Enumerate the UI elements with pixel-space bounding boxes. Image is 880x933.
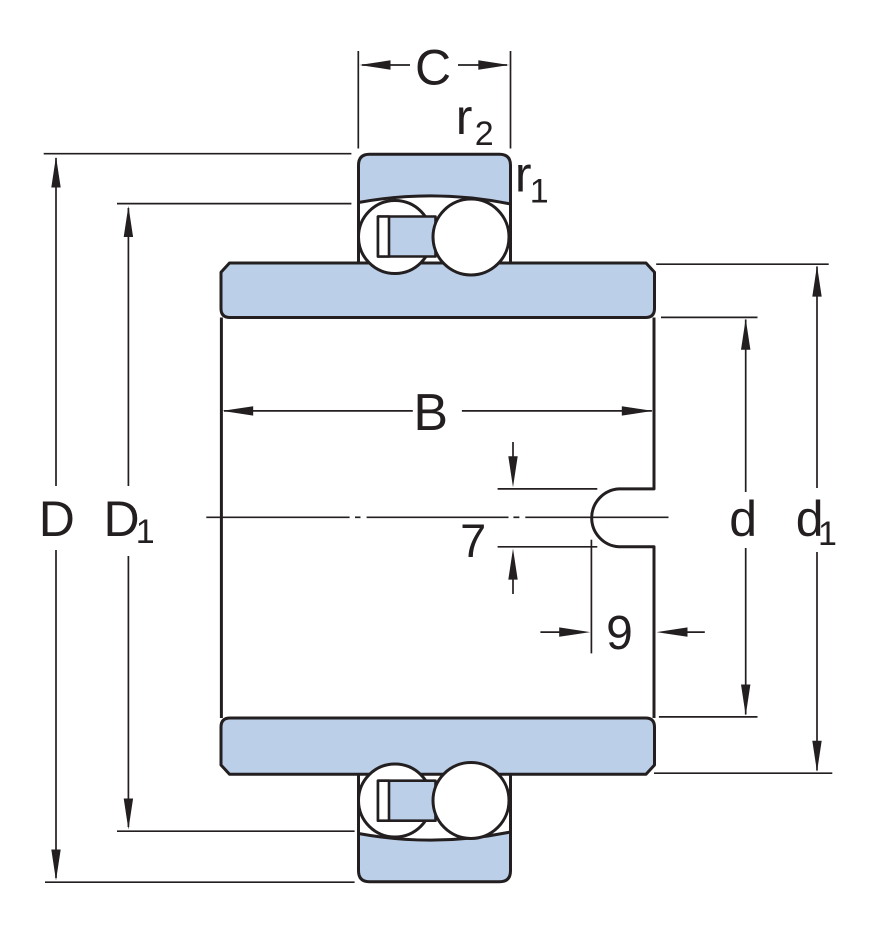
svg-text:B: B	[413, 384, 448, 442]
svg-text:9: 9	[606, 607, 633, 660]
svg-text:2: 2	[475, 115, 494, 153]
svg-text:7: 7	[460, 514, 486, 567]
svg-text:C: C	[415, 39, 451, 95]
svg-text:1: 1	[136, 513, 155, 551]
svg-text:D: D	[104, 491, 140, 547]
svg-text:r: r	[456, 89, 473, 145]
svg-text:1: 1	[530, 172, 549, 210]
svg-text:D: D	[39, 491, 75, 547]
svg-text:1: 1	[818, 515, 837, 553]
svg-text:d: d	[729, 491, 757, 547]
